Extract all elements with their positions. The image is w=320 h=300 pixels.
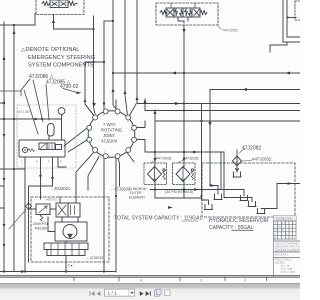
steering port labels — [21, 160, 62, 164]
svg-text:DECIMAL: DECIMAL — [275, 262, 286, 265]
arrow up x125 y92 — [124, 90, 127, 94]
joint port digits — [92, 113, 133, 154]
reservoir drain F — [257, 184, 277, 214]
arrow down x52.5 y180 — [51, 177, 54, 181]
border line bottom — [0, 275, 300, 277]
labels 47J2082 — [240, 146, 272, 162]
rotary joint text — [101, 122, 122, 144]
wire x53.5 drop — [54, 15, 94, 30]
reservoir drain D — [221, 190, 248, 201]
reservoir out wire — [277, 183, 300, 185]
svg-text:ROTATING: ROTATING — [101, 128, 122, 133]
pump circle — [55, 222, 87, 241]
label 47J2051 — [218, 25, 222, 30]
svg-text:.XXXX = .0005: .XXXX = .0005 — [280, 272, 296, 274]
filter 47J2031 left box — [144, 163, 167, 185]
svg-text:47J2082: 47J2082 — [242, 146, 261, 152]
wire h y21 — [104, 20, 113, 22]
title block tiny text — [275, 219, 310, 274]
wire h y121 right — [155, 120, 300, 122]
svg-text:#47J2031: #47J2031 — [156, 157, 172, 161]
wire x145 stub — [144, 99, 146, 111]
orifice check diamond — [26, 203, 32, 209]
svg-text:.XXX = .005: .XXX = .005 — [280, 269, 293, 271]
svg-text:DISTRIBUTION: DISTRIBUTION — [276, 219, 293, 221]
arrow left y103 x2 — [1, 102, 5, 105]
svg-text:△DENOTE OPTIONAL: △DENOTE OPTIONAL — [21, 47, 79, 53]
svg-text:DIMENSIONS ARE IN INCH: DIMENSIONS ARE IN INCH — [275, 246, 300, 249]
arrow up x145 y99 — [144, 99, 147, 103]
svg-text:←47J2032: ←47J2032 — [86, 256, 103, 260]
arrow up x15 y31 — [13, 30, 16, 35]
optional dashed enclosure — [17, 105, 76, 168]
joint radiating wires — [64, 98, 136, 199]
rotary joint ports — [87, 109, 137, 159]
wire h y25 left — [0, 14, 35, 26]
junction dots — [13, 24, 15, 26]
filter 47J2031 right box — [173, 163, 196, 185]
wire x155 filter feed — [154, 110, 156, 167]
toolbar prev-page button — [97, 291, 101, 296]
arrow down x4 y137 — [3, 134, 6, 138]
arrow right y119 x38 — [35, 118, 40, 121]
svg-text:AND HOLE CENTERS: AND HOLE CENTERS — [275, 250, 299, 253]
arrow right y271.5 x25 — [21, 270, 26, 273]
toolbar first-page button — [90, 291, 95, 296]
arrow down x4 y227 — [3, 224, 6, 228]
wire x184 valve drop — [183, 25, 185, 167]
svg-text:EMERGENCY STEERING: EMERGENCY STEERING — [28, 55, 95, 61]
wire bottom h y271.5 — [0, 271, 116, 273]
arrow right y207.5 x172 — [168, 206, 173, 209]
wire tank drop pair — [221, 152, 224, 198]
svg-text:ELEMENT: ELEMENT — [129, 195, 145, 199]
pump manifold — [44, 243, 88, 250]
arrow right y103.5 x179 — [175, 102, 180, 105]
wire h y73 right — [113, 72, 300, 74]
arrow down x4 y247 — [3, 244, 6, 248]
arrow left y89.5 x243 — [242, 88, 247, 91]
wire y119 gauge feed — [4, 118, 62, 120]
svg-text:47J2204: 47J2204 — [101, 139, 118, 144]
gauge circle — [58, 108, 65, 115]
svg-text:UNLESS OTHERWISE SPEC: UNLESS OTHERWISE SPEC — [275, 244, 300, 246]
arrow up x113 y90 — [112, 88, 115, 92]
arrow left y73 x172 — [171, 72, 176, 75]
filter right diamond — [176, 167, 190, 182]
wire x116 via joint — [115, 100, 117, 272]
zone numbers — [140, 278, 246, 282]
arrow down x155 y160 — [154, 158, 157, 162]
svg-text:A: A — [36, 160, 38, 164]
svg-text:2: 2 — [244, 278, 246, 282]
arrow up x53.5 y20 — [52, 19, 55, 23]
reservoir drain C — [202, 104, 213, 210]
steering valve ports — [25, 157, 66, 172]
svg-text:4: 4 — [140, 279, 142, 283]
svg-text:L·S: L·S — [282, 223, 286, 225]
valve 47J2051 enclosure — [156, 3, 218, 25]
wire x137 trunk — [136, 0, 138, 104]
arrow down x104 y106 — [103, 103, 106, 107]
svg-text:FRACTIONAL ±: FRACTIONAL ± — [275, 259, 292, 262]
arrow right 4790-02 leader — [77, 92, 82, 95]
pump wires — [60, 192, 78, 272]
filter left bypass — [163, 169, 165, 171]
svg-text:#47J2032: #47J2032 — [252, 157, 272, 162]
component box top-right — [283, 0, 300, 42]
svg-text:SYSTEM COMPONENTS: SYSTEM COMPONENTS — [28, 63, 94, 69]
svg-text:#47J-587: #47J-587 — [17, 110, 31, 114]
wire x104 trunk — [103, 21, 105, 272]
arrow up x155 y110 — [154, 110, 157, 114]
wire h y89.5 right — [210, 89, 300, 91]
svg-text:C●: C● — [68, 264, 73, 268]
wire filters bottom h y198 — [155, 190, 202, 199]
reservoir drain E — [224, 198, 256, 207]
arrow up x4 y57 — [3, 56, 6, 61]
svg-text:#47J2031: #47J2031 — [183, 157, 199, 161]
arrow down x40.5 y178 — [39, 175, 42, 179]
svg-text:7 WAY: 7 WAY — [103, 122, 116, 127]
svg-text:RELIEF: RELIEF — [35, 227, 48, 231]
directional valve — [56, 203, 68, 217]
svg-text:3: 3 — [200, 279, 202, 283]
component inner dashed — [295, 1, 304, 20]
svg-text:TOTAL SYSTEM CAPACITY : 119GAL: TOTAL SYSTEM CAPACITY : 119GAL. — [114, 216, 204, 222]
svg-text:ANGULAR ±: ANGULAR ± — [275, 254, 289, 257]
svg-text:HYDRAULIC RESERVOIR: HYDRAULIC RESERVOIR — [209, 218, 269, 224]
arrow right y189.5 x198 — [194, 188, 199, 191]
filter labels — [128, 157, 199, 200]
reservoir dashed box — [202, 163, 295, 217]
leader lines for labels — [0, 79, 78, 134]
toolbar pages icon — [155, 289, 162, 296]
arrow right y185.5 x214 — [211, 184, 216, 187]
title block table — [274, 216, 297, 240]
title block text panel — [274, 239, 301, 276]
toolbar next-page button — [140, 291, 144, 296]
wire h y103.5 right — [137, 103, 300, 105]
wire x125 trunk — [125, 0, 128, 116]
wire left stubs — [0, 103, 14, 208]
arrow down x4 y181 — [3, 178, 6, 182]
svg-text:(30 PSI BYPASS): (30 PSI BYPASS) — [165, 190, 193, 194]
zone ticks — [74, 278, 267, 281]
svg-text:JOINT: JOINT — [103, 133, 116, 138]
strainer diamond 47J2082 — [233, 150, 242, 172]
wire joint right links — [137, 121, 146, 152]
valve 47J2051 body — [160, 3, 207, 23]
toolbar page field — [105, 289, 135, 296]
svg-text:←40J2021: ←40J2021 — [50, 186, 71, 191]
filter right bypass — [191, 169, 193, 171]
wire h y62 — [85, 62, 104, 115]
rotary joint 47J2204 circle — [88, 111, 135, 158]
wire filters out h y189.5 — [150, 181, 221, 190]
svg-text:4790-02: 4790-02 — [60, 84, 79, 90]
svg-text:#40J-I01: #40J-I01 — [46, 198, 57, 202]
svg-text:1 / 1: 1 / 1 — [108, 290, 118, 296]
wire x93.5 vertical — [94, 16, 96, 114]
arrow down diag x94 y105 — [92, 103, 96, 107]
wire x210 drop — [209, 90, 211, 168]
svg-text:W·T: W·T — [275, 230, 280, 232]
arrow down x184 y160 — [183, 158, 186, 162]
wire trunk x4 — [3, 22, 5, 272]
wire trunk x14 — [13, 25, 15, 272]
accumulator 47J2086 — [48, 124, 55, 137]
wire h y152 — [145, 151, 224, 153]
svg-text:J: J — [275, 234, 276, 236]
label 2000 PSI RELIEF — [33, 222, 48, 231]
steering valve 40J2021 box — [19, 140, 65, 157]
wire into box — [288, 17, 297, 19]
svg-text:T: T — [48, 160, 50, 164]
wire x113 trunk — [113, 0, 117, 110]
svg-text:2000 PSI: 2000 PSI — [33, 222, 48, 226]
filter left diamond — [148, 167, 162, 182]
svg-text:#47J2051: #47J2051 — [223, 29, 238, 33]
toolbar snapshot icon — [165, 290, 171, 296]
arrow down x184 y32 — [183, 29, 186, 34]
wire h y110.5 right — [145, 110, 300, 112]
wire steering A drop — [24, 169, 26, 272]
pump enclosure dashed — [31, 197, 109, 262]
arrow down x210 y126 — [209, 122, 212, 127]
relief valve 2000psi — [36, 204, 50, 215]
valve 47J2085 enclosure — [36, 0, 84, 15]
strainer tank A — [233, 172, 241, 177]
svg-text:P: P — [60, 160, 62, 164]
valve 47J2085 body — [42, 0, 77, 8]
arrow right y183.5 x291 — [288, 182, 293, 185]
arrow left y73 x286 — [285, 72, 290, 75]
arrow up x137 y98 — [136, 96, 139, 100]
svg-text:L: L — [21, 160, 23, 164]
reservoir drain B — [210, 167, 222, 200]
toolbar last-page button — [146, 291, 151, 296]
arrow right y152 x197 — [193, 151, 198, 154]
svg-text:.XX = .06: .XX = .06 — [280, 266, 290, 268]
arrow up x85 y100 — [84, 98, 87, 102]
wire pump aux drop — [28, 186, 30, 262]
